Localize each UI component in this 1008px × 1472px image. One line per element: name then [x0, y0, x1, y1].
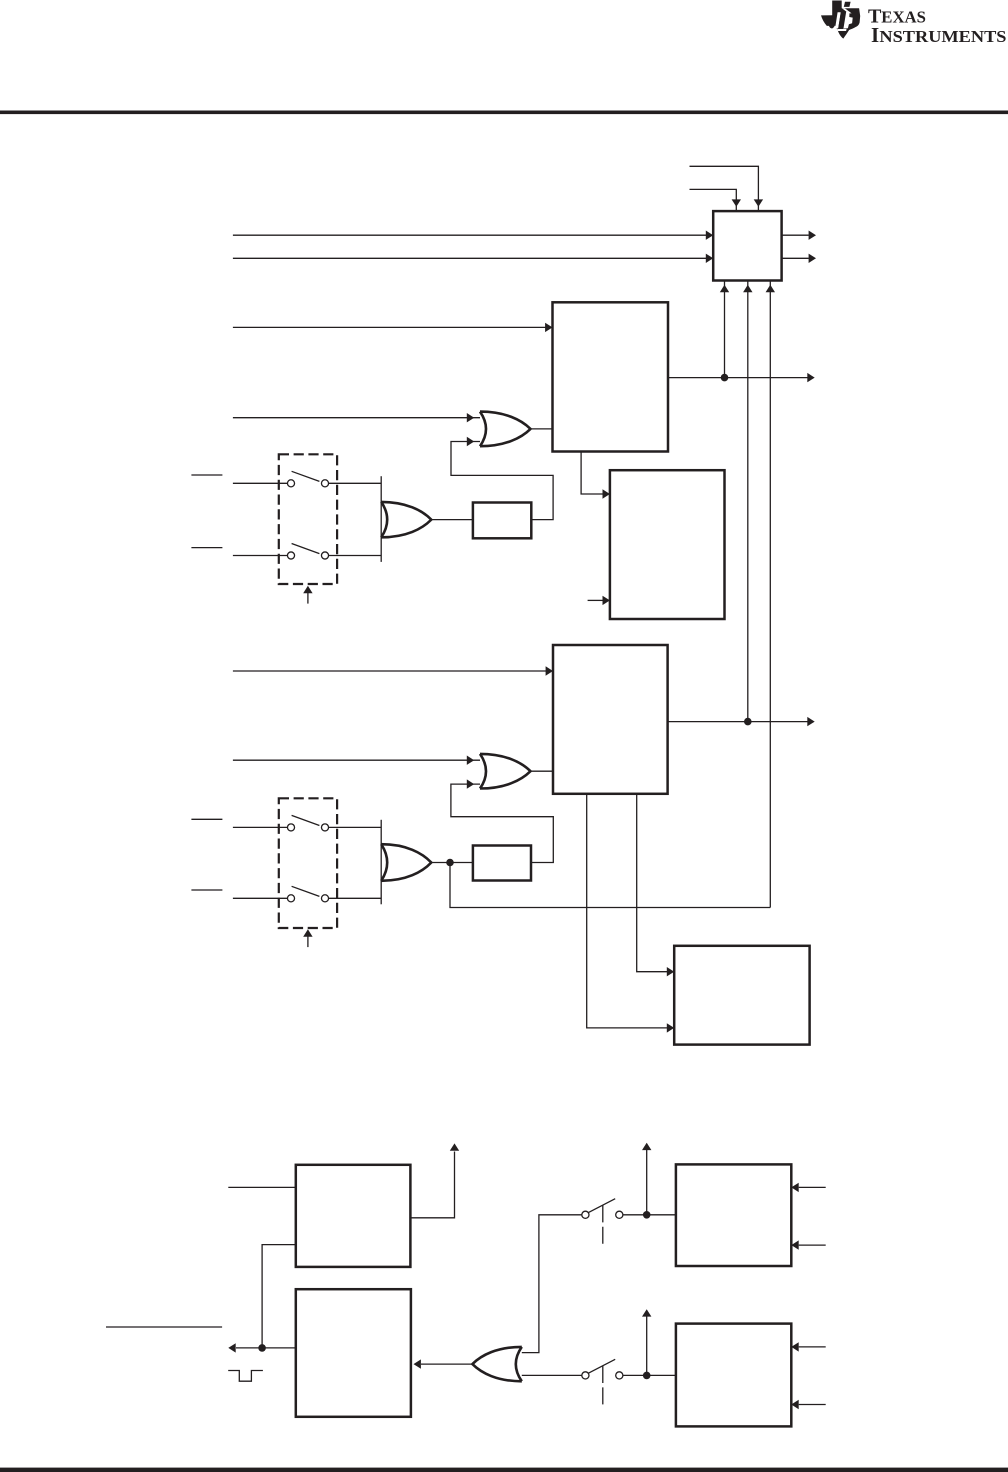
svg-text:EXAS: EXAS: [881, 8, 926, 27]
svg-text:I: I: [871, 23, 879, 47]
svg-text:NSTRUMENTS: NSTRUMENTS: [879, 27, 1006, 46]
